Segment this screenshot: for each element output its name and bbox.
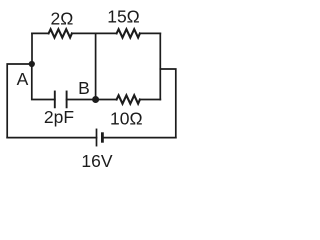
svg-text:A: A [17, 69, 29, 89]
svg-text:B: B [78, 78, 90, 98]
svg-text:2Ω: 2Ω [50, 9, 73, 29]
svg-text:10Ω: 10Ω [110, 109, 143, 129]
svg-text:16V: 16V [81, 151, 112, 171]
svg-text:2pF: 2pF [44, 107, 74, 127]
svg-text:15Ω: 15Ω [107, 7, 140, 27]
